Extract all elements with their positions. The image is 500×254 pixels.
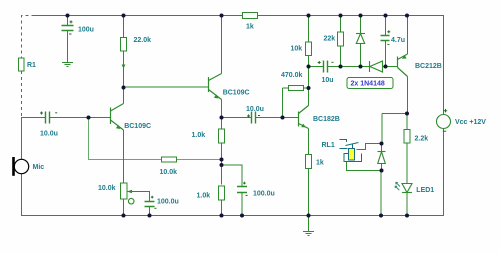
svg-text:4.7u: 4.7u [391,37,405,44]
svg-text:100.0u: 100.0u [253,191,275,198]
svg-text:1k: 1k [246,24,254,31]
svg-text:10.0u: 10.0u [40,131,58,138]
svg-text:22k: 22k [324,36,336,43]
svg-text:1.0k: 1.0k [192,132,206,139]
svg-text:BC109C: BC109C [124,123,151,130]
svg-text:22.0k: 22.0k [134,37,152,44]
svg-text:10u: 10u [322,77,334,84]
svg-text:1.0k: 1.0k [197,193,211,200]
svg-text:10k: 10k [291,46,303,53]
svg-text:Mic: Mic [33,164,45,171]
svg-text:470.0k: 470.0k [281,72,303,79]
svg-text:10.0k: 10.0k [98,185,116,192]
svg-text:2x 1N4148: 2x 1N4148 [351,81,385,88]
svg-text:100.0u: 100.0u [157,199,179,206]
svg-text:BC109C: BC109C [223,90,250,97]
svg-text:Vcc +12V: Vcc +12V [455,119,486,126]
svg-text:BC182B: BC182B [313,116,340,123]
svg-text:BC212B: BC212B [415,63,442,70]
svg-text:10.0k: 10.0k [160,169,178,176]
svg-text:100u: 100u [78,27,94,34]
svg-text:2.2k: 2.2k [415,136,429,143]
svg-text:10.0u: 10.0u [246,106,264,113]
svg-text:LED1: LED1 [416,187,434,194]
svg-text:R1: R1 [27,62,36,69]
svg-text:1k: 1k [316,160,324,167]
svg-text:RL1: RL1 [322,142,335,149]
